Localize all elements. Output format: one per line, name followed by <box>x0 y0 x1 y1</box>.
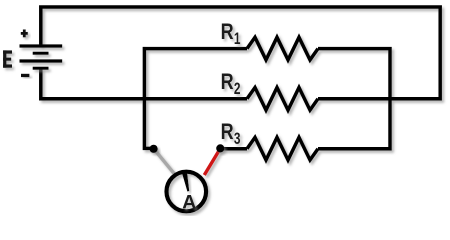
ammeter needle <box>182 173 189 191</box>
svg-text:A: A <box>182 193 196 214</box>
wire: R1 right wire, vertical to R3 right wire <box>318 49 390 149</box>
wire: R3 left wire to junction dot <box>220 147 247 151</box>
battery long plate (top, +) <box>20 44 63 47</box>
battery long plate <box>20 59 63 62</box>
wire: top rail from battery + terminal, right vertical down to R2 right wire <box>41 7 440 99</box>
label E <box>3 50 12 67</box>
svg-text:R: R <box>221 19 234 44</box>
wire: R1 left wire, left drop to ammeter junction <box>144 49 247 149</box>
junction dot left (node to ammeter) <box>150 145 158 153</box>
resistor R3 <box>247 137 318 160</box>
ammeter A ring <box>167 172 207 212</box>
label R3 <box>221 119 241 148</box>
label R1 <box>221 19 241 48</box>
svg-text:R: R <box>221 119 234 144</box>
wire: battery - terminal down and right to R2 left wire <box>41 68 247 99</box>
resistor R1 <box>247 37 318 60</box>
battery short plate <box>33 52 49 55</box>
svg-text:3: 3 <box>234 130 241 148</box>
junction dot right (node at R3 left) <box>216 144 224 152</box>
svg-text:R: R <box>221 69 234 94</box>
svg-text:2: 2 <box>234 80 241 98</box>
battery E plates <box>20 46 63 68</box>
battery + sign <box>21 30 28 38</box>
resistor R2 <box>247 88 318 111</box>
battery short plate (bottom, -) <box>33 67 49 70</box>
svg-text:1: 1 <box>234 30 241 48</box>
battery - sign <box>21 74 29 77</box>
label R2 <box>221 69 241 98</box>
wire: gray lead from junction to ammeter <box>154 149 175 174</box>
wire: red lead from ammeter to R3 junction <box>204 149 220 176</box>
ammeter A face <box>167 172 207 212</box>
